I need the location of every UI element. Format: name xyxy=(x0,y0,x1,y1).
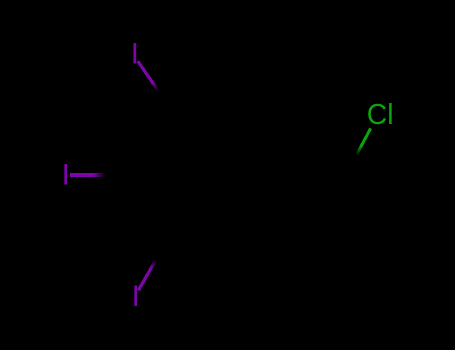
svg-text:I: I xyxy=(62,159,70,191)
svg-text:I: I xyxy=(132,281,140,313)
svg-text:I: I xyxy=(131,38,139,70)
svg-text:Cl: Cl xyxy=(367,98,394,130)
